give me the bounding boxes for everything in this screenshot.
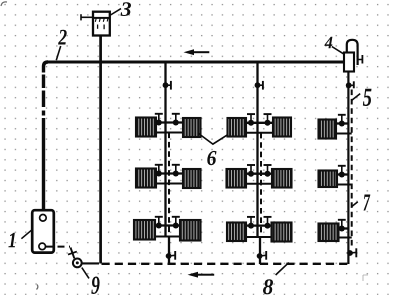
pump 9 (73, 259, 82, 268)
label 8 pointer (276, 263, 289, 275)
valve at bottom of riser A (166, 251, 175, 260)
valve on riser B below main (255, 81, 263, 90)
radiator A1 left (136, 118, 156, 137)
wire: supply riser C (347, 72, 349, 265)
label 3 pointer (111, 9, 122, 15)
wire: return riser A (dashed) (168, 133, 170, 237)
floor 2, group B: top connection pipe (245, 173, 274, 175)
label 6 pointer (vee) (198, 133, 227, 144)
floor 3, group B: bottom connection pipe (245, 236, 273, 238)
radiator A2 right (183, 169, 201, 188)
wire: supply pipe 2 (boiler to main, vertical) (44, 62, 49, 210)
radiator B1 right (273, 118, 291, 137)
radiator A3 right (180, 220, 201, 241)
floor 1, group A: top connection pipe (155, 121, 184, 123)
label 6 (207, 151, 216, 165)
floor 3, group C: top connection pipe (336, 227, 348, 229)
valve A2 right (172, 165, 180, 177)
radiator B3 left (227, 223, 246, 242)
radiator C3 (319, 224, 339, 242)
wire: main supply line (top horizontal) (46, 60, 344, 63)
floor 2, group C: top connection pipe (335, 173, 348, 175)
valve B3 left (247, 217, 255, 229)
label 7 pointer (352, 202, 358, 207)
valve at bottom of riser B (257, 251, 267, 260)
valve A1 left (155, 114, 163, 126)
wire: return drop riser A to return main (168, 237, 170, 265)
wire: supply riser A (164, 62, 166, 237)
floor 3, group A: bottom connection pipe (154, 236, 181, 238)
floor 1, group B: top connection pipe (245, 122, 274, 124)
radiator A3 left (134, 220, 155, 240)
valve B1 right (264, 114, 272, 126)
radiator B3 right (272, 223, 292, 242)
boiler 1 (32, 210, 54, 252)
floor 2, group B: bottom connection pipe (245, 183, 274, 185)
floor 2, group A: top connection pipe (155, 172, 184, 174)
floor 2, group A: bottom connection pipe (155, 183, 184, 185)
floor 1, group A: bottom connection pipe (155, 132, 184, 134)
valve A1 right (172, 114, 180, 126)
wire: return drop riser B to return main (259, 237, 261, 264)
label 8 (263, 279, 273, 294)
valve B3 right (264, 217, 272, 229)
label 4 (324, 37, 332, 49)
radiator A2 left (136, 169, 156, 188)
label 1 (8, 233, 15, 247)
floor 2, group C: bottom connection pipe (335, 184, 352, 186)
valve A3 right (172, 217, 180, 229)
label 5 pointer (352, 94, 360, 101)
label 2 pointer (56, 46, 60, 60)
floor 1, group B: bottom connection pipe (245, 132, 274, 134)
valve C2 (338, 166, 346, 178)
valve C1 (338, 115, 346, 127)
radiator C1 (319, 120, 337, 139)
valve C3 (338, 220, 346, 232)
valve B1 left (247, 114, 255, 126)
label 3 (120, 2, 131, 16)
valve at bottom of riser C (347, 248, 356, 257)
wire: supply riser B (256, 62, 258, 237)
label 2 (58, 30, 67, 45)
valve B2 right (264, 165, 272, 177)
floor 3, group B: top connection pipe (245, 224, 273, 226)
label 9 (91, 277, 99, 295)
valve on riser A below main (163, 81, 171, 90)
label 5 (363, 89, 372, 106)
label 7 (364, 195, 371, 211)
label 9 pointer (82, 268, 89, 279)
wire: pump to return-main junction (82, 262, 99, 264)
radiator A1 right (183, 118, 201, 137)
flow arrow on supply main (points left) (184, 49, 210, 55)
radiator B2 left (227, 169, 247, 188)
valve B2 left (247, 165, 255, 177)
label 1 pointer (21, 230, 31, 239)
wire: expansion-tank circulation pipe (vertical through main to return) (99, 36, 102, 264)
valve on riser C below air collector (346, 81, 354, 88)
wire: return main 8 (dashed horizontal) (102, 263, 349, 265)
radiator C2 (319, 171, 338, 188)
wire: boiler return to pump (dashed) (46, 247, 77, 259)
wire: return riser B (dashed) (260, 133, 262, 237)
floor 3, group C: bottom connection pipe (336, 237, 352, 239)
valve A2 left (155, 165, 163, 177)
air collector 4 (344, 40, 362, 72)
floor 1, group C: top connection pipe (335, 122, 348, 124)
valve A3 left (155, 217, 163, 229)
radiator B1 left (228, 118, 247, 137)
label 4 pointer (332, 47, 344, 54)
flow arrow on return main (points left) (188, 272, 215, 278)
radiator B2 right (272, 169, 292, 188)
wire: return riser C (dashed) (351, 90, 353, 250)
floor 3, group A: top connection pipe (154, 224, 181, 226)
expansion tank 3 (93, 12, 110, 36)
overflow pipe of tank 3 (81, 14, 93, 20)
gap marks on pipe 2 (dash-dot scan texture) (41, 73, 45, 119)
floor 1, group C: bottom connection pipe (335, 133, 352, 135)
